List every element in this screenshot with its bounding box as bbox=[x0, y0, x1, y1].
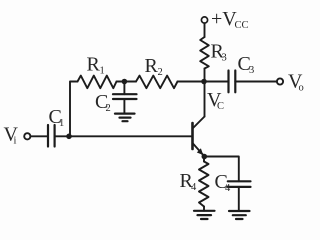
wire R2 to node VC bbox=[178, 81, 205, 83]
resistor R3 bbox=[200, 37, 209, 69]
label VC bbox=[207, 89, 224, 112]
junction node VC bbox=[201, 79, 207, 85]
svg-text:i: i bbox=[14, 136, 17, 147]
wire emitter node to C4 bbox=[204, 157, 239, 182]
wire R1 to junction bbox=[117, 81, 125, 83]
svg-text:4: 4 bbox=[225, 183, 231, 194]
terminal Vi bbox=[24, 133, 30, 139]
junction R1 R2 C2 bbox=[122, 79, 128, 85]
svg-text:4: 4 bbox=[191, 182, 197, 193]
wire base node to transistor base bbox=[69, 135, 193, 137]
svg-text:2: 2 bbox=[158, 67, 163, 78]
label Vo bbox=[288, 71, 304, 94]
wire emitter node to R4 bbox=[203, 157, 205, 162]
svg-text:1: 1 bbox=[59, 118, 64, 129]
wire collector to node VC bbox=[204, 82, 206, 117]
wire node VC to C3 bbox=[204, 81, 229, 83]
capacitor C2 bbox=[113, 94, 137, 99]
resistor R4 bbox=[199, 162, 209, 207]
capacitor C3 bbox=[229, 71, 236, 93]
label R4 bbox=[180, 170, 198, 193]
resistor R1 bbox=[78, 76, 117, 89]
terminal Vo bbox=[277, 78, 283, 84]
wire C1 to base junction bbox=[55, 135, 69, 137]
capacitor C1 bbox=[48, 125, 55, 147]
wire junction to R2 bbox=[124, 81, 136, 83]
junction base node bbox=[66, 134, 72, 140]
wire left rail: base node up and over to R1 bbox=[70, 82, 78, 135]
ground for R4 bbox=[194, 211, 215, 219]
wire VCC terminal to R3 bbox=[204, 23, 206, 37]
svg-text:3: 3 bbox=[249, 65, 254, 76]
junction emitter node bbox=[202, 154, 208, 160]
transistor Q1 collector lead bbox=[193, 117, 205, 129]
terminal +VCC bbox=[201, 17, 207, 23]
svg-text:+V: +V bbox=[211, 8, 237, 30]
label C4 bbox=[215, 171, 232, 194]
label C1 bbox=[49, 106, 65, 129]
svg-text:2: 2 bbox=[106, 103, 111, 114]
wire C4 to ground bbox=[238, 187, 240, 211]
wire R3 to node VC bbox=[204, 69, 206, 82]
label C3 bbox=[238, 53, 255, 76]
wire Vi to C1 bbox=[31, 135, 49, 137]
capacitor C2 lead from junction bbox=[123, 82, 125, 95]
label C2 bbox=[95, 91, 111, 114]
resistor R2 bbox=[136, 76, 178, 89]
svg-text:C: C bbox=[217, 101, 224, 112]
label R3 bbox=[211, 41, 227, 64]
svg-text:CC: CC bbox=[235, 20, 249, 31]
ground for C2 bbox=[115, 114, 135, 122]
ground for C4 bbox=[229, 211, 250, 219]
wire R4 to ground bbox=[203, 207, 205, 211]
label Vi bbox=[4, 124, 19, 147]
wire C3 to Vo terminal bbox=[235, 81, 276, 83]
transistor Q1 emitter lead with arrow bbox=[193, 143, 205, 156]
transistor Q1 base bar bbox=[191, 123, 194, 149]
svg-text:1: 1 bbox=[100, 66, 105, 77]
label R1 bbox=[87, 54, 105, 77]
label +VCC bbox=[211, 8, 249, 31]
capacitor C4 bbox=[228, 181, 251, 187]
svg-text:o: o bbox=[299, 83, 304, 94]
wire C2 to ground bbox=[123, 99, 125, 113]
svg-text:R: R bbox=[145, 55, 159, 77]
svg-text:3: 3 bbox=[222, 53, 227, 64]
svg-text:R: R bbox=[87, 54, 101, 76]
label R2 bbox=[145, 55, 163, 78]
